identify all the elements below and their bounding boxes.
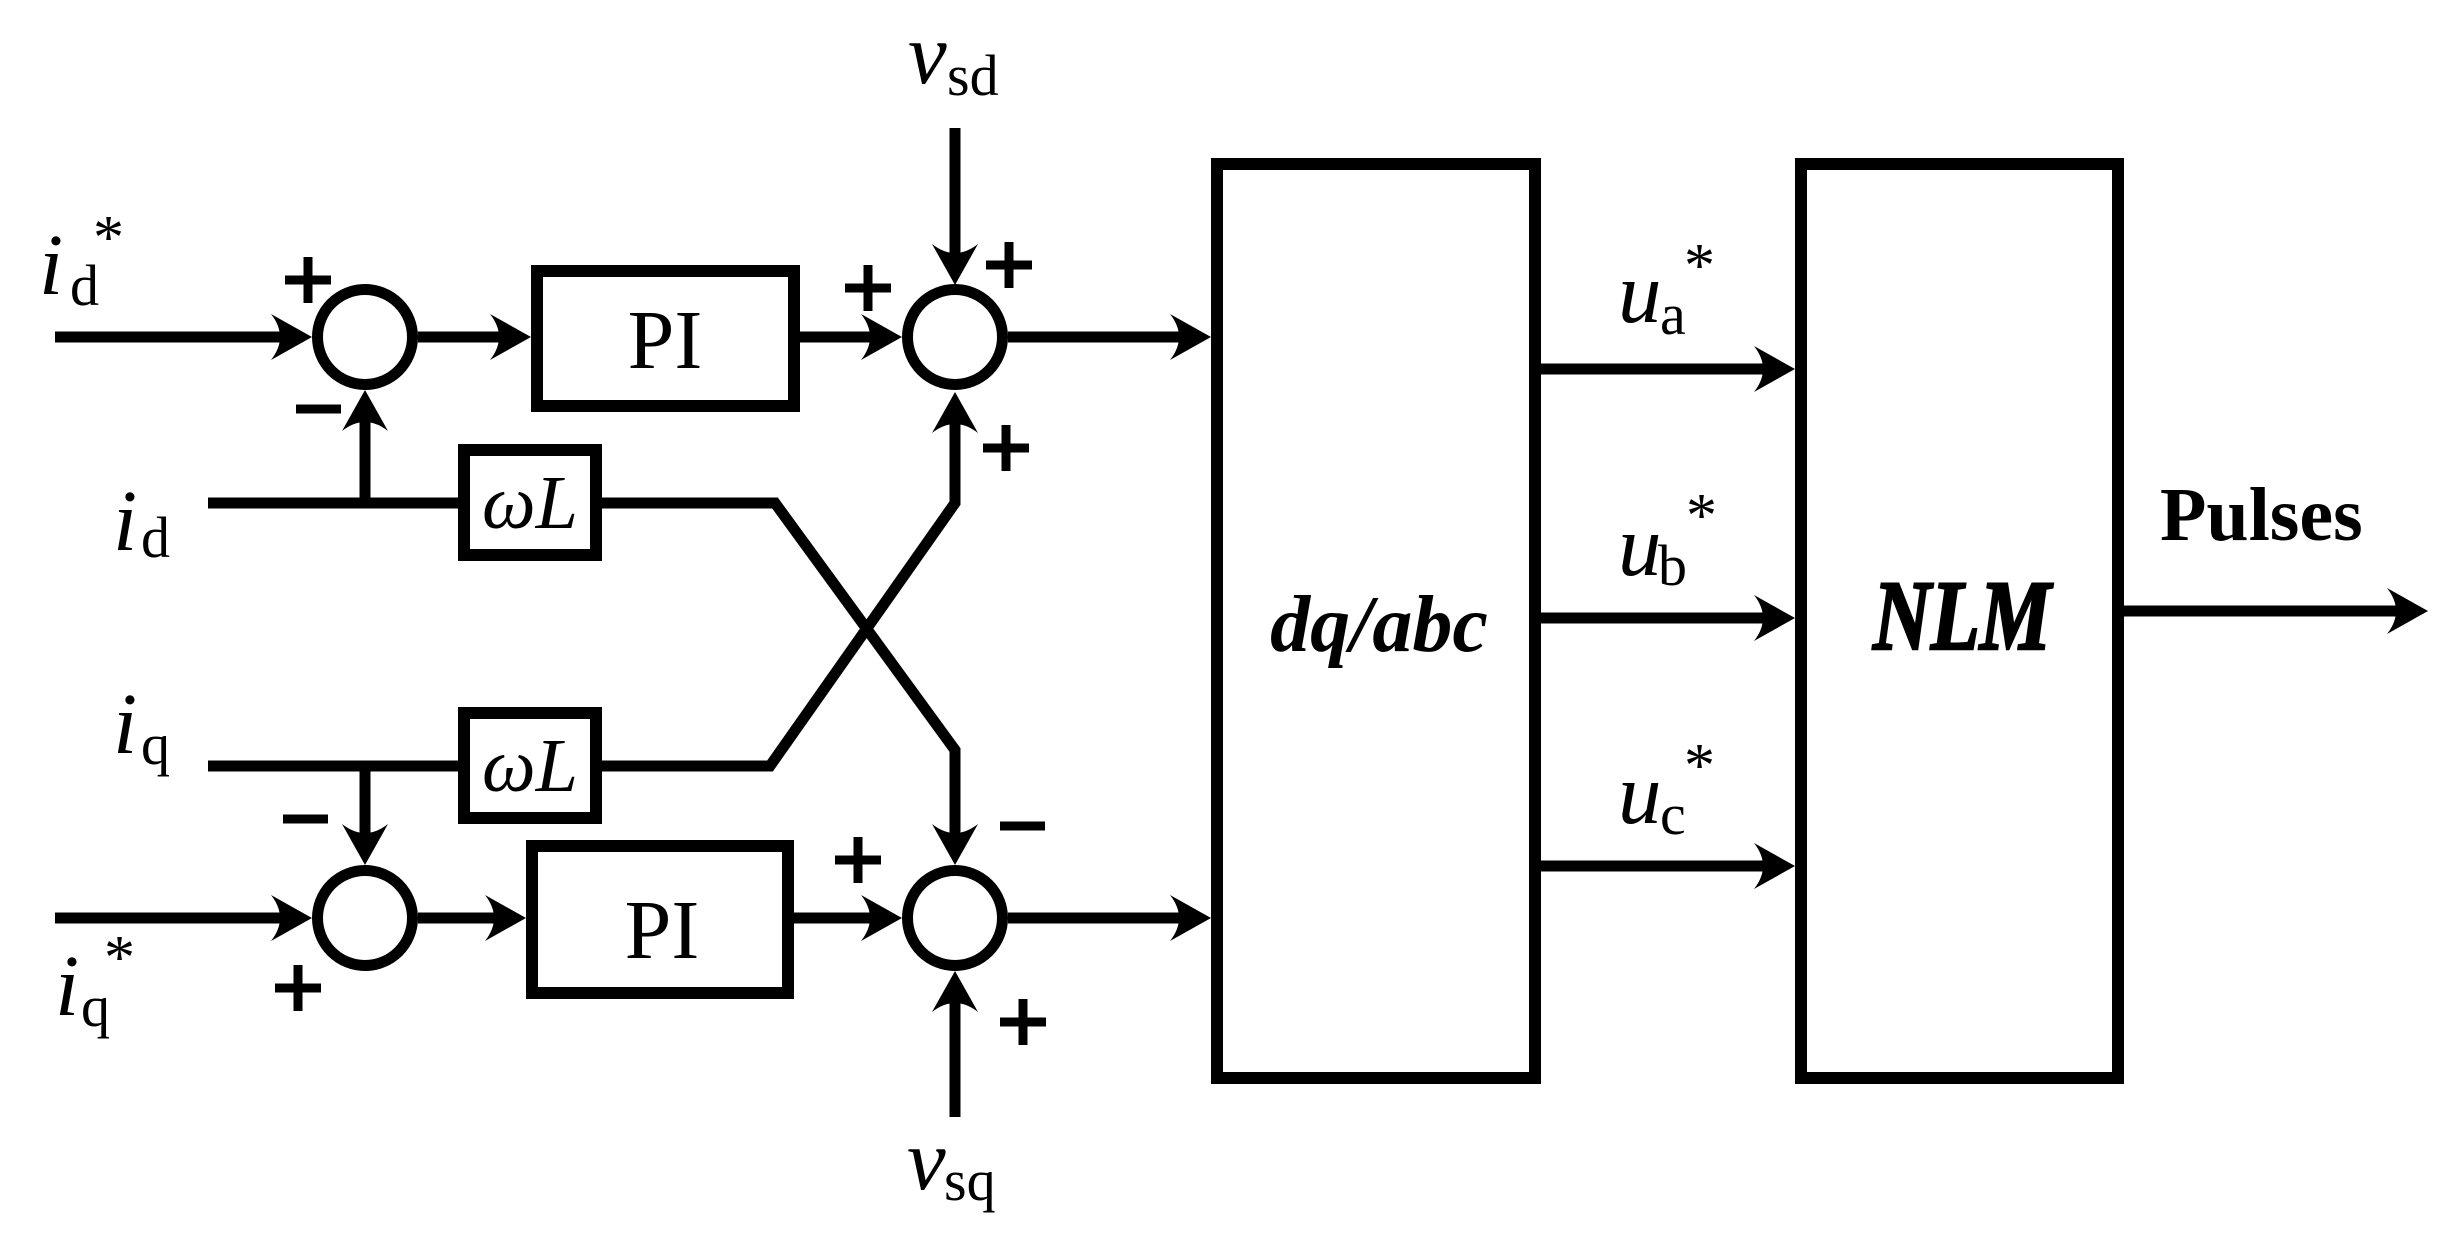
svg-text:i: i [55,937,79,1034]
minus sign S3 top input [283,815,328,824]
node u_a* label [1618,232,1715,347]
node i_q* label [55,924,135,1039]
summing junction S3 [318,871,413,966]
svg-text:u: u [1618,745,1662,842]
svg-text:*: * [1686,482,1717,550]
svg-text:Pulses: Pulses [2160,473,2363,557]
plus sign PI1 output [845,265,891,311]
svg-text:*: * [93,204,124,272]
block NLM [1801,164,2118,1078]
minus sign S1 feedback [296,405,341,414]
block PI2 [532,846,788,993]
wire S2 to dq/abc [1008,314,1211,360]
svg-text:*: * [1684,732,1715,800]
node i_d label [113,472,170,570]
wire PI2 to S4 [794,895,902,941]
svg-text:NLM: NLM [1872,560,2054,672]
svg-text:i: i [113,472,137,569]
svg-text:*: * [1684,232,1715,300]
wire i_q input [208,761,458,772]
wire u_a* to NLM [1541,346,1795,392]
plus sign S2 bottom input [983,425,1029,471]
plus sign S1 input [285,257,331,303]
wire i_q* input [55,895,312,941]
svg-text:dq/abc: dq/abc [1270,581,1488,669]
node Pulses label [2160,473,2363,557]
svg-text:PI: PI [628,294,703,387]
block omega-L 1 [464,450,596,555]
minus sign S4 top input [1000,822,1045,831]
wire PI1 to S2 [800,314,902,360]
block PI1 [537,271,794,406]
plus sign v_sq input [1000,999,1046,1045]
svg-text:sd: sd [947,43,999,108]
svg-text:v: v [907,1111,946,1208]
svg-text:ωL: ωL [482,724,578,808]
svg-text:q: q [141,712,170,777]
svg-text:*: * [104,924,135,992]
block dq/abc [1217,164,1535,1078]
svg-text:a: a [1660,282,1686,347]
svg-text:v: v [908,5,947,102]
node i_d* label [39,204,124,318]
wire NLM output [2124,588,2428,634]
node u_c* label [1618,732,1715,847]
wire i_d input [208,498,458,509]
wire v_sd into S2 [932,128,978,285]
block omega-L 2 [464,713,596,818]
svg-text:i: i [113,675,137,772]
svg-text:u: u [1618,497,1662,594]
node v_sd label [908,5,999,108]
svg-text:i: i [39,216,63,313]
wire u_c* to NLM [1541,843,1795,889]
wire i_d* input [55,314,312,360]
svg-text:u: u [1618,244,1662,341]
wire omega-L2 output crossing up to S2 [602,392,978,766]
wire S3 to PI2 [418,895,526,941]
svg-text:ωL: ωL [482,461,578,545]
svg-text:d: d [141,505,170,570]
node i_q label [113,675,170,777]
summing junction S4 [908,871,1003,966]
svg-text:sq: sq [944,1148,996,1213]
wire S4 to dq/abc [1008,895,1211,941]
wire v_sq into S4 [932,971,978,1117]
wire S1 to PI1 [418,314,531,360]
summing junction S2 [908,290,1003,385]
wire u_b* to NLM [1541,595,1795,641]
svg-text:b: b [1658,533,1687,598]
svg-text:c: c [1660,782,1686,847]
wire i_d branch up into S1 [342,390,388,503]
plus sign S3 input [275,965,321,1011]
plus sign v_sd input [986,242,1032,288]
node v_sq label [907,1111,996,1213]
wire i_q branch down into S3 [342,766,388,865]
summing junction S1 [318,290,413,385]
plus sign PI2 output [835,837,881,883]
wire omega-L1 output crossing down to S4 [602,503,978,865]
node u_b* label [1618,482,1717,598]
svg-text:PI: PI [625,884,700,977]
